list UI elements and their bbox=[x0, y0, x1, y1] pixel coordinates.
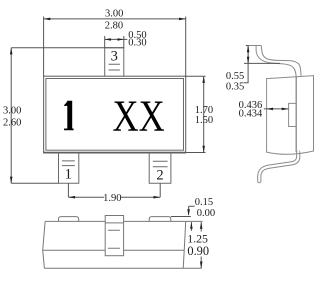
dim 1.90 dimension line bbox=[68, 196, 160, 198]
lead section bump bbox=[289, 103, 297, 126]
front body right edge bbox=[183, 221, 186, 268]
svg-text:0.55: 0.55 bbox=[226, 71, 244, 82]
dim 1.90 left riser bbox=[67, 183, 69, 197]
front middle lead bbox=[105, 216, 123, 256]
dim 0.50/0.30 extension lines bbox=[105, 36, 124, 48]
dim 0.436/0.434 dimension line bbox=[264, 108, 289, 110]
svg-text:0.90: 0.90 bbox=[187, 244, 209, 258]
svg-text:XX: XX bbox=[113, 91, 165, 140]
body bottom edge emphasis bbox=[43, 152, 186, 154]
dim 0.55/0.35 dimension line with hook bbox=[244, 46, 248, 83]
dim 1.70/1.50 up arrow bbox=[202, 76, 205, 83]
dim 0.15/0.00 leader bbox=[189, 206, 195, 215]
dim 1.25/0.90 down arrow bbox=[200, 262, 203, 269]
dim 1.70/1.50 top extension line bbox=[186, 75, 206, 77]
dim 0.55/0.35 bottom extension bbox=[244, 62, 280, 64]
body outline (top view) outer bbox=[44, 76, 186, 152]
pin 1 (top view) bbox=[59, 153, 79, 184]
bottom lead (outline via double stroke) bbox=[259, 152, 298, 181]
bottom lead inner white bbox=[259, 151, 298, 181]
svg-text:0.00: 0.00 bbox=[197, 208, 215, 219]
dim 0.50/0.30 dimension line with leader bbox=[105, 38, 128, 40]
dim 1.90 left arrow bbox=[68, 196, 75, 199]
dim 3.00/2.60 top extension line (tab top) bbox=[11, 47, 124, 49]
dim 0.55/0.35 up arrow bbox=[247, 46, 250, 53]
front foot pin2 bbox=[149, 217, 171, 222]
side body outline bbox=[267, 76, 314, 155]
dim 1.70/1.50 dimension line bbox=[203, 76, 205, 152]
top lead foot (left edge and cap) bbox=[248, 46, 261, 64]
front foot pin1 bbox=[59, 217, 79, 222]
package marking text "1" bbox=[64, 101, 74, 131]
svg-text:1.50: 1.50 bbox=[195, 115, 213, 126]
svg-text:3: 3 bbox=[111, 49, 118, 65]
svg-text:3.00: 3.00 bbox=[3, 106, 21, 117]
dim 0.15/0.00 down arrow bbox=[187, 209, 190, 216]
front foot-top extension line bbox=[171, 216, 191, 218]
dim 0.50/0.30 left arrow bbox=[105, 38, 111, 41]
svg-text:0.15: 0.15 bbox=[195, 197, 213, 208]
dim 3.00/2.60 dimension line bbox=[10, 48, 12, 184]
dim 3.00/2.60 down arrow bbox=[10, 177, 13, 184]
dim 3.00/2.80 left arrow bbox=[44, 18, 51, 21]
dim 1.70/1.50 down arrow bbox=[202, 146, 205, 153]
dim 1.90 right riser bbox=[159, 183, 161, 197]
pin 2 lead marks bbox=[153, 161, 168, 167]
pin 3 lead marks bbox=[109, 64, 120, 70]
svg-text:0.30: 0.30 bbox=[128, 38, 146, 49]
dim 0.55/0.35 top extension bbox=[246, 45, 248, 47]
dim 3.00/2.60 bottom extension line bbox=[11, 182, 58, 184]
svg-text:0.35: 0.35 bbox=[226, 82, 244, 93]
top lead inner bend bbox=[256, 46, 296, 77]
lead edge through body bbox=[295, 76, 297, 152]
dim 3.00/2.80 right arrow bbox=[179, 18, 186, 21]
svg-text:1: 1 bbox=[65, 167, 72, 183]
dim 0.55/0.35 down arrow bbox=[247, 57, 250, 64]
dim 1.25/0.90 lower shaft bbox=[200, 257, 202, 269]
svg-text:0.434: 0.434 bbox=[239, 108, 263, 119]
svg-text:2.60: 2.60 bbox=[3, 118, 21, 129]
dim 1.25/0.90 upper arrow with shaft bbox=[200, 222, 202, 231]
top lead outer bend bbox=[261, 46, 301, 77]
pin 3 tab (top view) bbox=[105, 48, 124, 76]
pin 2 (top view) bbox=[149, 153, 171, 184]
front body left edge bbox=[43, 221, 45, 268]
front body bottom edge bbox=[44, 267, 201, 269]
svg-text:1.90: 1.90 bbox=[103, 193, 121, 204]
dim 0.436/0.434 right arrow bbox=[282, 108, 289, 111]
dim 3.00/2.80 extension line right bbox=[185, 17, 187, 77]
dim 3.00/2.80 extension line left bbox=[43, 17, 45, 77]
pin 1 lead marks bbox=[62, 161, 75, 166]
front middle lead cap line bbox=[105, 222, 123, 224]
front body top edge bbox=[45, 220, 203, 222]
front middle lead marks bbox=[108, 230, 120, 248]
dim 0.50/0.30 right arrow bbox=[118, 38, 124, 41]
dim text 1.90 (white backed) bbox=[104, 193, 121, 202]
svg-text:2: 2 bbox=[156, 168, 163, 184]
svg-text:2.80: 2.80 bbox=[105, 20, 123, 31]
body outline (top view) inner bbox=[46, 79, 184, 151]
dim 0.436/0.434 left arrow bbox=[266, 108, 273, 111]
dim 3.00/2.60 up arrow bbox=[10, 48, 13, 55]
dim 3.00/2.80 dimension line bbox=[44, 18, 186, 20]
svg-text:3.00: 3.00 bbox=[105, 8, 123, 19]
dim 1.70/1.50 bottom extension line bbox=[186, 152, 206, 154]
front body mid line bbox=[43, 249, 185, 251]
dim 1.90 right arrow bbox=[154, 196, 161, 199]
dim 0.15/0.00 up arrow with shaft bbox=[190, 222, 192, 231]
